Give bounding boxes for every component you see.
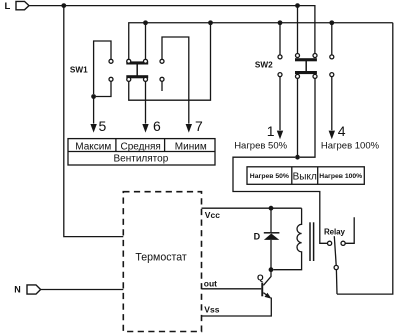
wire 2 (second horizontal bus)	[129, 23, 393, 59]
stub SW1 outer-right bottom	[161, 81, 163, 91]
transistor Q emitter	[202, 293, 272, 316]
junction dot wire2 / SW2 outer-left	[278, 20, 283, 25]
contact SW1 mid-left bottom	[127, 77, 131, 81]
terminal L	[16, 1, 29, 9]
table heater modes divider 1	[291, 167, 293, 185]
relay coil	[273, 208, 301, 270]
contact SW2 mid-left bottom	[296, 74, 300, 78]
contact SW2 outer-left bottom	[278, 73, 282, 77]
svg-text:Нагрев 50%: Нагрев 50%	[234, 140, 287, 151]
transistor Q base bar	[261, 283, 263, 297]
diode D	[264, 208, 280, 270]
wire N to thermostat	[41, 289, 124, 291]
svg-text:L: L	[5, 1, 11, 12]
transistor Q base wire	[202, 288, 262, 290]
relay blade	[334, 236, 336, 265]
switch SW1 bridge bottom bar	[126, 75, 148, 78]
junction dot wire2 / SW2 outer-right	[329, 20, 334, 25]
relay core bar 1	[309, 222, 311, 261]
svg-text:Термостат: Термостат	[135, 251, 187, 263]
table fan speeds column divider 2	[164, 139, 166, 152]
contact SW1 outer-left bottom	[109, 77, 113, 81]
svg-text:7: 7	[195, 118, 203, 134]
junction dot L-bus / thermostat feed	[61, 3, 66, 8]
junction dot wire2 / SW1 lower loop	[208, 20, 213, 25]
wire relay common drop	[335, 270, 338, 295]
transistor Q collector	[263, 270, 271, 286]
junction dot coil / diode / collector	[269, 267, 274, 272]
wire drop wire1 to SW2 mid-left contact	[297, 6, 299, 54]
contact SW1 mid-right top	[144, 59, 148, 63]
switch SW1 bridge link	[136, 64, 138, 76]
svg-text:5: 5	[99, 118, 107, 134]
table fan speeds outer box	[68, 139, 215, 165]
contact SW2 outer-left top	[278, 55, 282, 59]
svg-text:Вентилятор: Вентилятор	[114, 154, 169, 165]
switch SW2 bridge bottom bar	[295, 71, 317, 74]
table fan speeds row divider	[68, 151, 215, 153]
relay contact fixed left	[328, 241, 332, 245]
wire heater net to relay contact	[233, 157, 328, 243]
wire Vcc rail	[202, 207, 302, 209]
wire L bus (top horizontal, wire 1)	[29, 6, 315, 54]
thermostat dashed box	[123, 192, 201, 332]
junction dot heater net	[295, 155, 300, 160]
svg-text:1: 1	[267, 123, 275, 139]
terminal N	[27, 285, 41, 294]
svg-text:Vcc: Vcc	[205, 210, 220, 220]
wire SW1 outer-left bottom link	[96, 81, 111, 96]
contact SW1 mid-right bottom	[144, 77, 148, 81]
arrow 4	[329, 77, 335, 140]
arrow 6	[142, 81, 148, 132]
svg-text:Vss: Vss	[204, 305, 219, 315]
wire drop wire2 to SW2 outer-right top contact	[331, 23, 333, 55]
junction dot Vcc / diode	[269, 206, 274, 211]
contact SW2 mid-left top	[296, 54, 300, 58]
table fan speeds column divider 1	[115, 139, 117, 152]
svg-text:6: 6	[153, 118, 161, 134]
junction dot wire2 / SW1 mid-right	[143, 20, 148, 25]
svg-text:N: N	[14, 285, 20, 295]
svg-text:D: D	[254, 231, 261, 241]
switch SW2 bridge link	[305, 61, 307, 72]
svg-text:Выкл: Выкл	[293, 171, 317, 182]
contact SW1 outer-right bottom	[160, 77, 164, 81]
wire SW1 outer-right bracket to arrow 7	[162, 37, 189, 124]
wire L feed down to thermostat	[64, 6, 124, 237]
svg-text:Нагрев 50%: Нагрев 50%	[250, 173, 289, 180]
relay contact fixed right	[341, 241, 345, 245]
relay common contact	[334, 265, 338, 269]
switch SW1 bridge top bar	[126, 61, 148, 64]
svg-text:Q: Q	[257, 273, 264, 283]
arrow 7	[186, 124, 192, 133]
svg-text:Нагрев 100%: Нагрев 100%	[321, 140, 380, 151]
table heater modes divider 2	[317, 167, 319, 185]
svg-text:Нагрев 100%: Нагрев 100%	[319, 173, 362, 180]
relay right contact bracket	[345, 217, 354, 243]
wire SW1 outer-left top bracket	[94, 41, 111, 94]
svg-text:SW2: SW2	[255, 61, 273, 70]
svg-text:Миним: Миним	[175, 141, 207, 152]
svg-text:SW1: SW1	[70, 66, 88, 75]
wire drop wire2 to SW2 outer-left top contact	[279, 23, 281, 55]
wire drop wire2 to SW1 mid-right top contact	[145, 23, 147, 59]
table heater modes outer box	[247, 167, 364, 185]
contact SW1 outer-left top	[109, 59, 113, 63]
wire right edge drop to relay common	[337, 23, 393, 294]
contact SW2 mid-right bottom	[313, 74, 317, 78]
contact SW2 mid-right top	[313, 54, 317, 58]
contact SW1 mid-left top	[127, 59, 131, 63]
wire SW2 mid-left bottom drop	[297, 79, 299, 156]
wire SW2 mid-right bottom drop	[300, 79, 315, 158]
contact SW2 outer-right bottom	[330, 73, 334, 77]
junction dot SW1 common (to arrow 5)	[91, 94, 96, 99]
svg-text:4: 4	[338, 123, 346, 139]
arrow 5	[90, 97, 96, 133]
switch SW2 bridge top bar	[295, 58, 317, 61]
svg-text:Relay: Relay	[324, 227, 345, 236]
contact SW2 outer-right top	[330, 55, 334, 59]
wire loop wire2 down-around to SW1 mid-left bottom contact	[129, 23, 211, 100]
svg-text:Средняя: Средняя	[121, 141, 161, 152]
contact SW1 outer-right top	[160, 59, 164, 63]
relay core bar 2	[313, 222, 315, 261]
svg-text:Максим: Максим	[75, 141, 111, 152]
arrow 1	[277, 77, 283, 140]
junction dot L-bus / SW2 pole	[295, 3, 300, 8]
svg-text:out: out	[204, 278, 217, 288]
